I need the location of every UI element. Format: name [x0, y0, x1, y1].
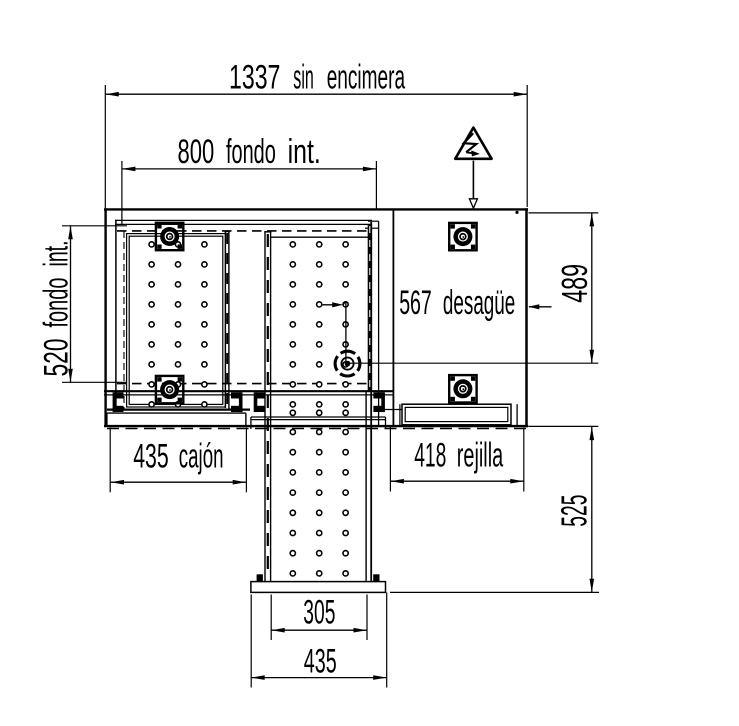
- grille 418 inner: [405, 407, 508, 421]
- base plate left fixing: [257, 574, 263, 581]
- base plate right fixing: [373, 574, 379, 581]
- dim 567 desague arrow: [399, 284, 551, 322]
- svg-text:encimera: encimera: [327, 59, 405, 97]
- svg-text:1337: 1337: [229, 59, 280, 97]
- small dot on top edge: [515, 211, 518, 214]
- middle compartment left wall (column left side): [264, 232, 271, 582]
- left compartment inner dashed edge: [123, 231, 125, 409]
- dim 305: [271, 594, 367, 640]
- hidden dashed line bottom: [117, 383, 369, 385]
- svg-text:fondo: fondo: [37, 278, 75, 328]
- right compartment left wall: [379, 210, 394, 426]
- drain leader arrow: [322, 302, 346, 362]
- cabinet body outline: [104, 208, 528, 427]
- triangle pointer arrow: [469, 161, 477, 209]
- drain extension line to 489 dim: [348, 362, 599, 364]
- dim 1337 sin encimera: [105, 59, 527, 208]
- dim 525 vertical: [390, 426, 599, 592]
- drawer slide bracket left: [113, 392, 124, 412]
- pedestal base plate: [251, 582, 386, 593]
- svg-text:int.: int.: [37, 241, 75, 267]
- dim 800 fondo int.: [122, 133, 377, 225]
- dim 520 fondo int.: [37, 226, 127, 382]
- column flange band: [251, 417, 386, 429]
- svg-text:489: 489: [554, 264, 595, 303]
- left panel holes: [149, 242, 207, 407]
- socket left top: [156, 223, 183, 250]
- svg-text:435: 435: [304, 642, 337, 680]
- dim 489 desague vertical: [529, 213, 599, 363]
- dim 435 cajon: [110, 428, 246, 493]
- body inner top double line: [115, 220, 379, 411]
- svg-text:418: 418: [414, 437, 446, 475]
- middle panel and column holes: [290, 242, 348, 576]
- column bracket right: [373, 392, 385, 412]
- svg-text:int.: int.: [288, 133, 321, 171]
- drawer perforated panel (left): [127, 234, 226, 407]
- middle panel top edge: [271, 236, 369, 238]
- svg-text:rejilla: rejilla: [457, 437, 503, 475]
- svg-text:525: 525: [554, 495, 595, 527]
- left compartment right wall: [225, 231, 230, 410]
- svg-text:sin: sin: [293, 59, 314, 97]
- svg-text:fondo: fondo: [226, 133, 276, 171]
- socket left bottom: [156, 376, 183, 403]
- bottom rail second line: [104, 394, 394, 396]
- grille 418 outer: [402, 404, 511, 425]
- left compartment bottom thick line: [107, 409, 250, 411]
- step line right of column: [384, 409, 402, 411]
- drain fitting symbol: [335, 351, 360, 376]
- middle compartment right thick wall: [366, 222, 371, 581]
- hidden dashed line below body: [107, 428, 527, 430]
- dim 418 rejilla: [390, 427, 523, 492]
- grille right short line: [516, 404, 518, 425]
- column bracket left: [254, 392, 265, 412]
- svg-text:305: 305: [303, 594, 335, 632]
- svg-text:520: 520: [37, 339, 75, 377]
- drawer front band: [107, 413, 246, 426]
- grille left edge line: [399, 404, 401, 425]
- socket right top: [449, 223, 476, 250]
- svg-text:800: 800: [178, 133, 215, 171]
- electrical hazard triangle: [455, 128, 491, 159]
- bottom rail thick line: [104, 390, 394, 392]
- svg-text:435: 435: [133, 437, 169, 475]
- hidden dashed line top: [117, 230, 369, 232]
- svg-text:567: 567: [399, 284, 432, 322]
- svg-text:desagüe: desagüe: [443, 284, 515, 322]
- drawer slide bracket right-inner: [231, 392, 243, 412]
- socket right bottom: [449, 375, 476, 402]
- dim 435 base: [251, 593, 387, 688]
- svg-text:cajón: cajón: [179, 437, 224, 475]
